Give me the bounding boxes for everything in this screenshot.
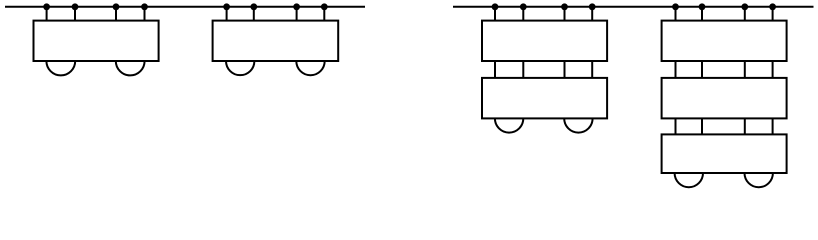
junction dot: U2 pin 2 on bus bbox=[250, 3, 257, 10]
wire: U5-U6 link stub 1 bbox=[675, 61, 677, 78]
module U7 box (bottom of 3-stack) bbox=[662, 134, 787, 173]
U1 bottom bump right bbox=[116, 61, 145, 75]
wire: U6-U7 link stub 1 bbox=[675, 118, 677, 134]
wire: U3-U4 link stub 1 bbox=[494, 61, 496, 78]
junction dot: U2 pin 4 on bus bbox=[321, 3, 328, 10]
wire: U5-U6 link stub 2 bbox=[701, 61, 703, 78]
U1 bottom bump left bbox=[46, 61, 75, 75]
U7 bottom bump left bbox=[675, 173, 703, 187]
wire: right bus line bbox=[453, 6, 814, 8]
junction dot: U1 pin 4 on bus bbox=[141, 3, 148, 10]
module U6 box (middle of 3-stack) bbox=[662, 78, 787, 119]
wire: U2 pin 3 stub bbox=[296, 7, 298, 21]
wire: U1 pin 3 stub bbox=[115, 7, 117, 21]
wire: left bus line bbox=[5, 6, 365, 8]
wire: U6-U7 link stub 4 bbox=[772, 118, 774, 134]
junction dot: U1 pin 3 on bus bbox=[113, 3, 120, 10]
module U4 box (lower of 2-stack) bbox=[482, 78, 607, 119]
wire: U5 pin 2 stub bbox=[701, 7, 703, 21]
module U3 box (upper of 2-stack) bbox=[482, 21, 607, 61]
wire: U3-U4 link stub 4 bbox=[591, 61, 593, 78]
junction dot: U5 pin 3 on bus bbox=[741, 3, 748, 10]
U7 bottom bump right bbox=[745, 173, 773, 187]
junction dot: U3 pin 4 on bus bbox=[589, 3, 596, 10]
junction dot: U2 pin 1 on bus bbox=[223, 3, 230, 10]
junction dot: U3 pin 3 on bus bbox=[561, 3, 568, 10]
wire: U3-U4 link stub 3 bbox=[564, 61, 566, 78]
wire: U5-U6 link stub 4 bbox=[772, 61, 774, 78]
wire: U3-U4 link stub 2 bbox=[522, 61, 524, 78]
junction dot: U5 pin 4 on bus bbox=[769, 3, 776, 10]
wire: U1 pin 1 stub bbox=[46, 7, 48, 21]
U4 bottom bump right bbox=[564, 118, 592, 132]
wire: U5 pin 1 stub bbox=[675, 7, 677, 21]
module U2 box bbox=[213, 21, 339, 61]
wire: U3 pin 3 stub bbox=[564, 7, 566, 21]
wire: U6-U7 link stub 3 bbox=[744, 118, 746, 134]
wire: U5-U6 link stub 3 bbox=[744, 61, 746, 78]
junction dot: U5 pin 2 on bus bbox=[699, 3, 706, 10]
junction dot: U2 pin 3 on bus bbox=[293, 3, 300, 10]
wire: U5 pin 4 stub bbox=[772, 7, 774, 21]
U2 bottom bump right bbox=[296, 61, 324, 75]
module U5 box (top of 3-stack) bbox=[662, 21, 787, 61]
junction dot: U1 pin 1 on bus bbox=[43, 3, 50, 10]
junction dot: U5 pin 1 on bus bbox=[672, 3, 679, 10]
wire: U2 pin 4 stub bbox=[323, 7, 325, 21]
U4 bottom bump left bbox=[495, 118, 523, 132]
wire: U6-U7 link stub 2 bbox=[701, 118, 703, 134]
wire: U1 pin 4 stub bbox=[144, 7, 146, 21]
module U1 box bbox=[34, 21, 159, 61]
junction dot: U1 pin 2 on bus bbox=[72, 3, 79, 10]
wire: U3 pin 4 stub bbox=[591, 7, 593, 21]
junction dot: U3 pin 2 on bus bbox=[520, 3, 527, 10]
wire: U3 pin 1 stub bbox=[494, 7, 496, 21]
wire: U1 pin 2 stub bbox=[74, 7, 76, 21]
U2 bottom bump left bbox=[226, 61, 254, 75]
wire: U2 pin 1 stub bbox=[226, 7, 228, 21]
wire: U5 pin 3 stub bbox=[744, 7, 746, 21]
wire: U2 pin 2 stub bbox=[253, 7, 255, 21]
junction dot: U3 pin 1 on bus bbox=[492, 3, 499, 10]
wire: U3 pin 2 stub bbox=[522, 7, 524, 21]
